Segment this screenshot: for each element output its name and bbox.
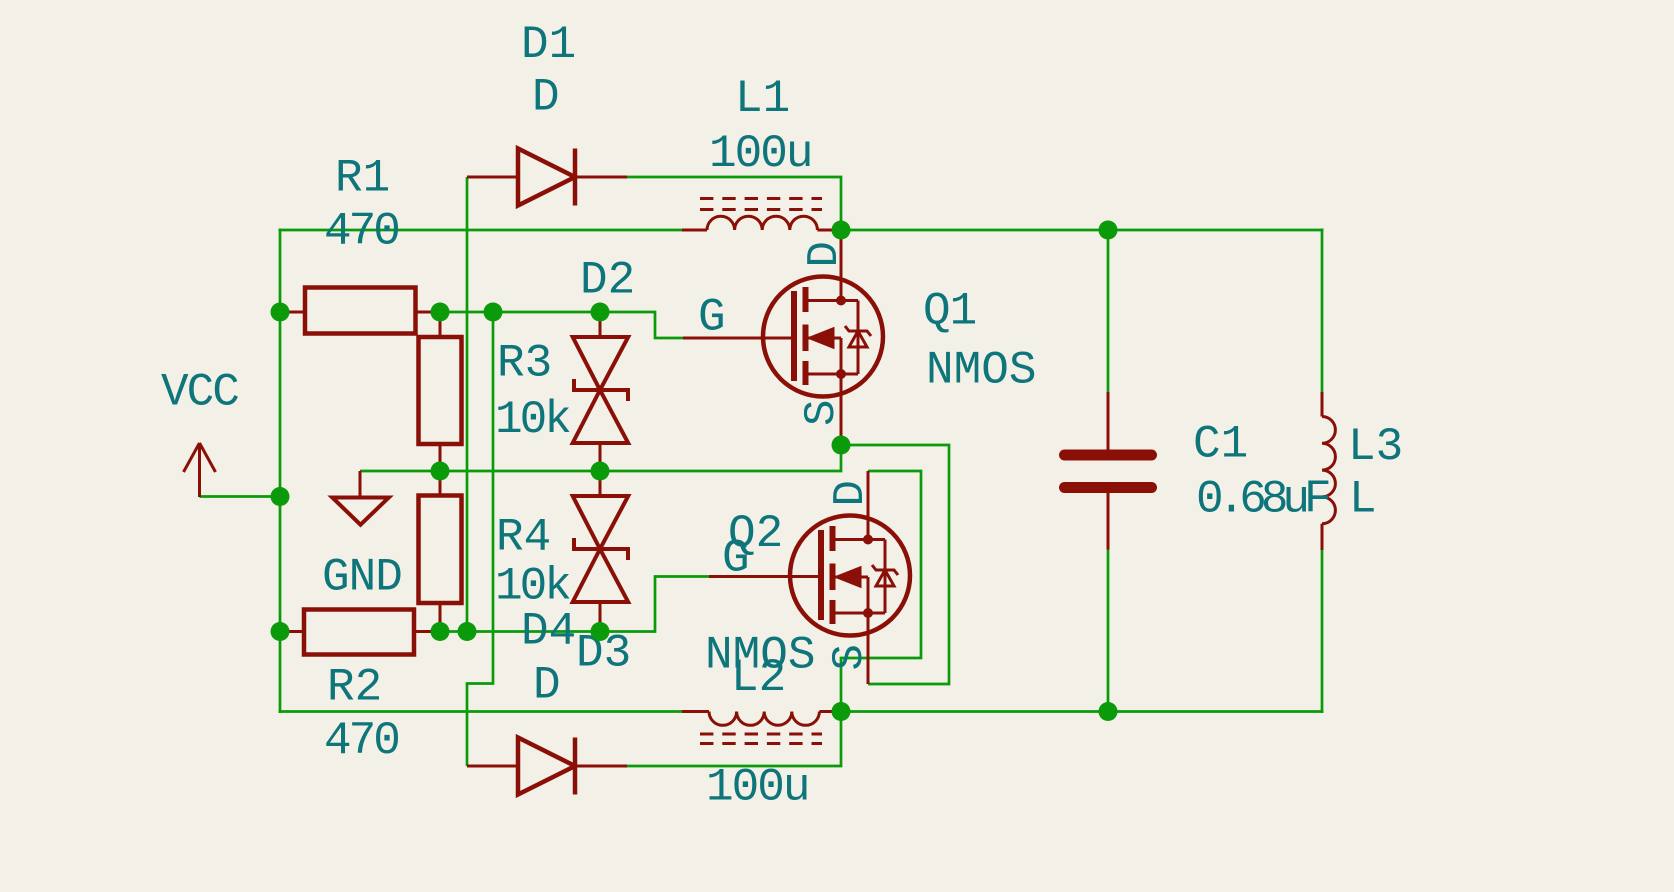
label R3 value 10k — [495, 394, 570, 446]
wire GND row — [360, 445, 841, 471]
capacitor C1 — [1059, 392, 1157, 550]
wire top rail VCC to L1 — [279, 229, 684, 232]
junction GND row / D2-D3 — [591, 462, 610, 481]
transistor Q2 — [709, 471, 910, 684]
wire node A: L1 to top-right corner — [841, 229, 1324, 232]
svg-text:R1: R1 — [335, 153, 390, 205]
svg-text:D: D — [532, 72, 560, 124]
svg-text:L3: L3 — [1348, 421, 1403, 473]
label Q1 pin S — [797, 400, 847, 426]
junction R1 / R3 — [431, 303, 450, 322]
label Q2 value NMOS — [705, 630, 815, 682]
junction node B (L2/Q2 drain) — [832, 702, 851, 721]
label L2 — [731, 652, 786, 704]
label R4 — [496, 512, 551, 564]
label Q2 — [728, 508, 783, 560]
svg-text:470: 470 — [324, 206, 398, 258]
wire VCC symbol to left rail — [200, 495, 281, 498]
power symbol VCC — [184, 443, 216, 497]
label Q2 pin S — [825, 644, 875, 670]
svg-text:D1: D1 — [521, 19, 576, 71]
zener TVS D3 — [573, 471, 629, 631]
label D1 value D — [532, 72, 560, 124]
junction gate net 1 / D4 riser — [484, 303, 503, 322]
label Q1 pin D — [800, 241, 850, 267]
wire D4 cathode to node B — [627, 712, 841, 767]
label Q1 value NMOS — [926, 345, 1036, 397]
junction node A (Q1 drain) — [832, 221, 851, 240]
svg-text:Q2: Q2 — [728, 508, 783, 560]
wire Q2 drain to node B loop — [841, 471, 921, 712]
junction left rail / R1 — [271, 303, 290, 322]
label D2 — [580, 255, 635, 307]
label C1 — [1193, 419, 1248, 471]
label Q2 pin G — [722, 533, 750, 585]
zener TVS D2 — [573, 312, 629, 472]
diode D1 — [467, 149, 627, 206]
label L3 value L — [1349, 474, 1377, 526]
svg-text:D: D — [800, 241, 850, 267]
label R3 — [497, 338, 552, 390]
label R2 — [327, 662, 382, 714]
transistor Q1 — [683, 230, 883, 445]
wire R2 row (gate net 2) — [440, 577, 709, 632]
label D4 — [521, 606, 576, 658]
label L1 — [735, 73, 790, 125]
svg-text:GND: GND — [322, 552, 402, 604]
wire node B: L2 to bottom-right corner — [841, 710, 1324, 713]
label GND — [322, 552, 402, 604]
svg-text:470: 470 — [324, 715, 398, 767]
junction R2 row / D1 anode — [458, 622, 477, 641]
junction left rail / R2 — [271, 622, 290, 641]
wire bottom rail VCC to L2 — [279, 710, 684, 713]
svg-text:VCC: VCC — [161, 367, 238, 419]
label R1 value 470 — [324, 206, 398, 258]
svg-text:Q1: Q1 — [923, 286, 976, 338]
wire R1 row (gate net 1) — [440, 312, 683, 338]
label R2 value 470 — [324, 715, 398, 767]
wire right rail lower (L3 to bottom) — [1321, 550, 1324, 713]
wire VCC left rail — [279, 229, 282, 714]
label Q2 pin D — [826, 480, 876, 506]
wire D1 anode drop (to R2 row) — [466, 177, 469, 632]
svg-text:S: S — [825, 644, 875, 670]
svg-text:R2: R2 — [327, 662, 382, 714]
label VCC — [161, 367, 238, 419]
svg-text:R3: R3 — [497, 338, 552, 390]
label Q1 pin G — [698, 292, 726, 344]
svg-text:10k: 10k — [495, 394, 570, 446]
wire Q1 source to Q2 source loop — [841, 445, 949, 684]
svg-text:S: S — [797, 400, 847, 426]
junction R2 / R4 — [431, 622, 450, 641]
svg-text:NMOS: NMOS — [705, 630, 815, 682]
wire right rail upper (to L3) — [1321, 229, 1324, 393]
label L2 value 100u — [706, 762, 808, 814]
label R4 value 10k — [495, 561, 570, 613]
junction R2 row / D3 — [591, 622, 610, 641]
label C1 value 0.68uF — [1196, 474, 1329, 526]
resistor R4 — [419, 471, 462, 632]
junction C1 top — [1099, 221, 1118, 240]
diode D4 — [467, 738, 627, 795]
wire C1 bottom connection — [1107, 550, 1110, 712]
junction GND row / R3-R4 — [431, 462, 450, 481]
resistor R3 — [419, 312, 462, 471]
label L3 — [1348, 421, 1403, 473]
svg-text:NMOS: NMOS — [926, 345, 1036, 397]
inductor L2 — [682, 712, 841, 744]
wire C1 top connection — [1107, 230, 1110, 392]
inductor L1 — [682, 199, 841, 231]
inductor L3 — [1322, 392, 1335, 550]
junction gate net 1 / D2 — [591, 303, 610, 322]
svg-text:L1: L1 — [735, 73, 790, 125]
svg-text:D4: D4 — [521, 606, 576, 658]
label D4 value D — [533, 660, 561, 712]
svg-text:L: L — [1349, 474, 1377, 526]
svg-text:D: D — [533, 660, 561, 712]
svg-text:D2: D2 — [580, 255, 635, 307]
label D1 — [521, 19, 576, 71]
svg-text:D: D — [826, 480, 876, 506]
svg-text:G: G — [698, 292, 726, 344]
svg-text:R4: R4 — [496, 512, 551, 564]
junction VCC — [271, 487, 290, 506]
ground symbol GND — [332, 471, 389, 525]
wire D1 anode corner — [467, 176, 468, 179]
svg-text:0.68uF: 0.68uF — [1196, 474, 1329, 526]
wire D4 anode riser — [467, 312, 493, 766]
junction Q1 source — [832, 436, 851, 455]
svg-text:100u: 100u — [709, 128, 811, 180]
label L1 value 100u — [709, 128, 811, 180]
svg-text:100u: 100u — [706, 762, 808, 814]
resistor R2 — [280, 610, 440, 655]
label D3 — [576, 628, 631, 680]
label R1 — [335, 153, 390, 205]
label Q1 — [923, 286, 976, 338]
resistor R1 — [280, 288, 440, 334]
svg-text:C1: C1 — [1193, 419, 1248, 471]
junction C1 bottom — [1099, 702, 1118, 721]
wire D1 cathode to node A — [627, 177, 841, 230]
